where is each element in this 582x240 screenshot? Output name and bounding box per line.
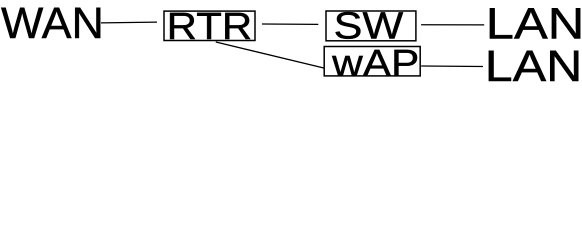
wire SW-LAN xyxy=(421,24,484,26)
wire wAP-LAN xyxy=(421,65,483,68)
router box RTR xyxy=(164,11,255,40)
switch box SW xyxy=(326,11,416,41)
svg-text:LAN: LAN xyxy=(486,0,582,48)
svg-text:LAN: LAN xyxy=(485,42,582,87)
wire WAN-RTR xyxy=(101,21,157,24)
access point box wAP xyxy=(324,47,420,76)
svg-text:SW: SW xyxy=(334,5,404,47)
wire RTR-SW xyxy=(262,23,318,25)
svg-text:wAP: wAP xyxy=(331,43,419,85)
wire RTR-wAP xyxy=(216,42,324,68)
svg-text:WAN: WAN xyxy=(1,0,104,48)
svg-text:RTR: RTR xyxy=(167,6,253,48)
